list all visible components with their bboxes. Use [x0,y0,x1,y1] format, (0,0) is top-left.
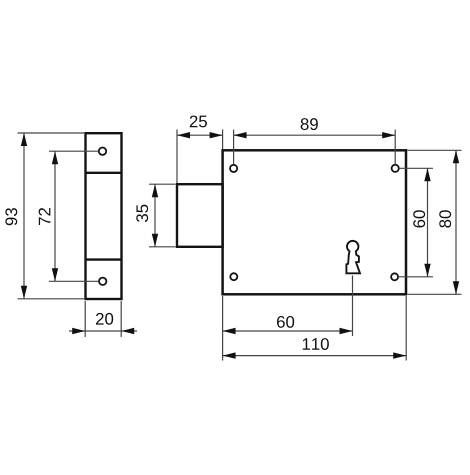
arrow 80 down [453,281,459,294]
ext line keyhole center [352,276,354,337]
case hole bottom-left [230,273,237,280]
label 110 [303,338,329,350]
arrow 72 down [52,268,58,281]
arrow 89 left [234,132,247,138]
dim line 25 [177,134,223,136]
arrowheads [21,132,459,359]
ext line case left bottom [222,296,224,361]
arrow 20 left(pointing right) [72,328,85,334]
arrow 25 right [210,132,223,138]
label 93 [5,208,17,225]
ext lines dim 80 [408,149,462,151]
label 80 [439,210,451,227]
dim line 93 [23,133,25,299]
ext lines dim 35 [149,183,176,185]
dim line 80 [455,150,457,294]
dim line 72 [54,151,56,281]
arrow 20 right(pointing left) [121,328,134,334]
dim line 20 [69,330,137,332]
dim line 35 [154,184,156,247]
arrow 25 left [177,132,190,138]
label 20 [96,313,113,325]
thin extension and dimension lines [18,130,462,361]
arrow 35 down [152,234,158,247]
label 72 [39,208,51,225]
arrow 110 right [393,352,406,358]
dim line 110 [223,355,407,357]
label 25 [190,115,207,127]
case hole top-right [392,165,399,172]
face plate screw hole bottom [99,278,106,285]
ext line case right bottom [405,296,407,361]
arrow 60 bottom left [223,328,236,334]
keyhole [346,241,360,273]
label 60 right [413,210,425,227]
ext lines dim 72 [49,150,99,152]
ext lines dim 25 [176,130,178,184]
label 35 [136,205,148,222]
dim line 60 bottom [223,330,353,332]
ext lines dim 93 [18,132,85,134]
dim line 60 right [427,168,429,276]
arrow 93 down [21,286,27,299]
label 60 bottom [277,316,294,328]
arrow 80 up [453,150,459,163]
dim line 89 [234,134,396,136]
arrow 110 left [223,352,236,358]
case hole bottom-right [391,273,398,280]
face plate screw hole top [99,148,106,155]
ext lines dim 60 right [399,167,433,169]
arrow 72 up [52,151,58,164]
arrow 60 right down [424,264,430,277]
arrow 35 up [152,184,158,197]
arrow 60 bottom right [340,328,353,334]
face plate outline [86,133,122,299]
case hole top-left [230,165,237,172]
ext lines dim 89 [233,130,235,165]
label 89 [301,118,318,130]
bolt tab outline [177,184,223,247]
arrow 89 right [382,132,395,138]
ext lines dim 20 [84,301,86,337]
arrow 93 up [21,133,27,146]
lock case outline [223,150,406,294]
arrow 60 right up [424,168,430,181]
